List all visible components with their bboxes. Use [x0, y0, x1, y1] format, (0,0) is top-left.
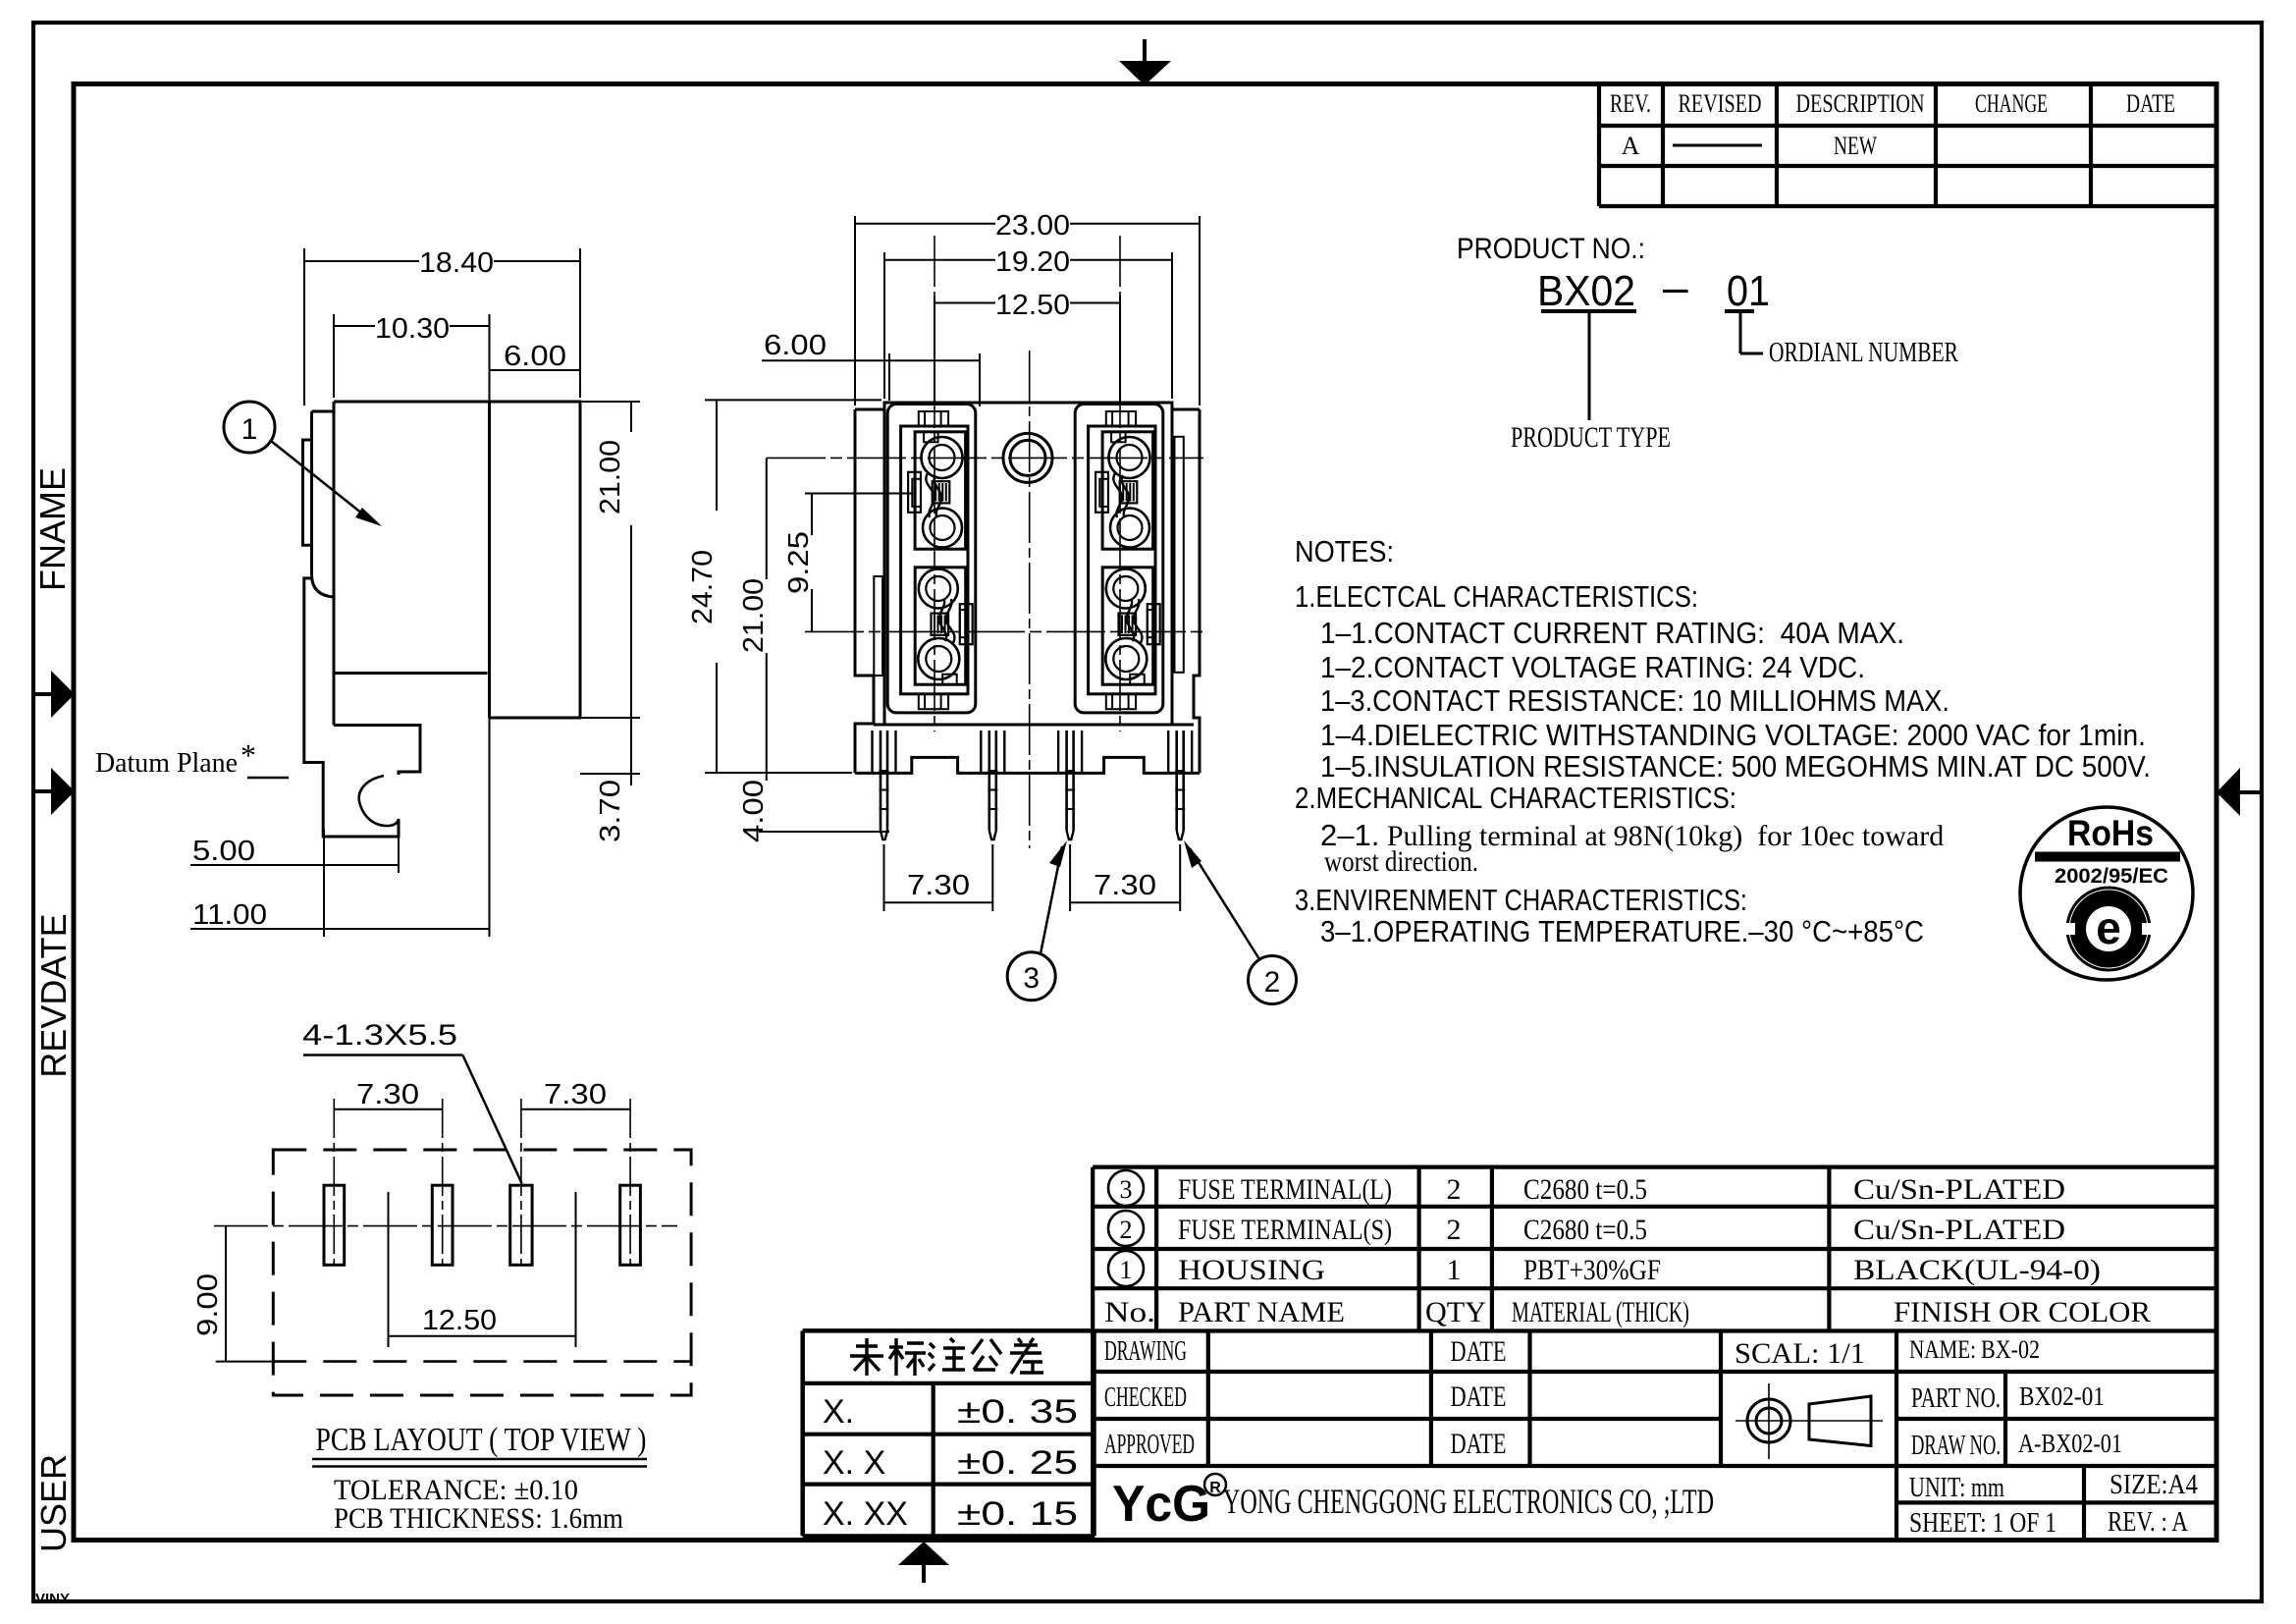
- dim 3.70: [580, 773, 640, 775]
- svg-text:4.00: 4.00: [738, 780, 770, 842]
- svg-text:3: 3: [1023, 962, 1040, 995]
- dim 5.00: [323, 830, 325, 873]
- dim 7.30 left: [883, 844, 885, 911]
- svg-text:1–2.CONTACT VOLTAGE RATING: 24: 1–2.CONTACT VOLTAGE RATING: 24 VDC.: [1320, 650, 1865, 684]
- svg-text:PRODUCT TYPE: PRODUCT TYPE: [1511, 421, 1671, 454]
- svg-text:2.MECHANICAL CHARACTERISTICS:: 2.MECHANICAL CHARACTERISTICS:: [1295, 781, 1736, 815]
- title block grid: [1091, 1331, 1095, 1541]
- svg-text:1: 1: [1447, 1254, 1462, 1286]
- svg-text:YcG: YcG: [1112, 1476, 1210, 1533]
- svg-text:11.00: 11.00: [192, 899, 267, 931]
- svg-text:1–4.DIELECTRIC WITHSTANDING VO: 1–4.DIELECTRIC WITHSTANDING VOLTAGE: 200…: [1320, 718, 2146, 752]
- front view body outline: [855, 403, 1200, 409]
- dim 23.00: [854, 216, 856, 406]
- svg-text:3–1.OPERATING TEMPERATURE.–30: 3–1.OPERATING TEMPERATURE.–30 °C~+85°C: [1320, 914, 1924, 948]
- dim 9.25: [805, 493, 913, 495]
- fuse block left top tab: [919, 411, 948, 426]
- svg-text:1: 1: [1120, 1256, 1133, 1284]
- svg-text:18.40: 18.40: [419, 247, 494, 279]
- svg-text:SIZE:A4: SIZE:A4: [2109, 1470, 2198, 1500]
- dim 21.00 front: [766, 458, 768, 579]
- svg-text:21.00: 21.00: [738, 578, 770, 653]
- projection symbol circles: [1747, 1399, 1790, 1442]
- dim 10.30: [333, 314, 335, 398]
- balloon 2 fuse terminal S: [1249, 956, 1297, 1004]
- BOM table grid: [1093, 1164, 2216, 1168]
- centerline lower clips: [805, 630, 1203, 632]
- svg-text:1: 1: [241, 413, 258, 446]
- svg-text:USER: USER: [33, 1454, 74, 1552]
- svg-text:CHECKED: CHECKED: [1104, 1382, 1187, 1413]
- svg-text:1.ELECTCAL CHARACTERISTICS:: 1.ELECTCAL CHARACTERISTICS:: [1295, 579, 1698, 614]
- underline BX02: [1541, 309, 1636, 313]
- svg-text:1–1.CONTACT CURRENT RATING: 4: 1–1.CONTACT CURRENT RATING: 40A MAX.: [1320, 616, 1904, 650]
- svg-text:DATE: DATE: [1451, 1380, 1507, 1413]
- svg-text:C2680 t=0.5: C2680 t=0.5: [1523, 1173, 1647, 1206]
- svg-text:19.20: 19.20: [995, 246, 1070, 278]
- side view foot: [323, 774, 399, 837]
- svg-text:23.00: 23.00: [995, 210, 1070, 242]
- svg-text:PBT+30%GF: PBT+30%GF: [1523, 1254, 1661, 1286]
- dim 7.30 right: [1069, 844, 1071, 911]
- svg-text:DESCRIPTION: DESCRIPTION: [1796, 89, 1925, 118]
- svg-text:X. XX: X. XX: [823, 1495, 908, 1533]
- svg-text:C2680 t=0.5: C2680 t=0.5: [1523, 1214, 1647, 1246]
- svg-text:Cu/Sn-PLATED: Cu/Sn-PLATED: [1853, 1214, 2065, 1246]
- svg-text:4-1.3X5.5: 4-1.3X5.5: [302, 1019, 457, 1052]
- svg-text:2: 2: [1447, 1214, 1462, 1246]
- svg-text:1–3.CONTACT RESISTANCE: 10 MIL: 1–3.CONTACT RESISTANCE: 10 MILLIOHMS MAX…: [1320, 683, 1949, 718]
- svg-text:3: 3: [1120, 1175, 1133, 1204]
- svg-text:2: 2: [1447, 1173, 1462, 1206]
- projection symbol cone: [1809, 1396, 1871, 1446]
- svg-text:9.00: 9.00: [192, 1273, 224, 1336]
- dim 4.00: [766, 773, 768, 781]
- fuse block right top tab: [1106, 411, 1136, 426]
- svg-text:NOTES:: NOTES:: [1295, 534, 1394, 568]
- side view left tabs: [312, 410, 335, 413]
- svg-text:APPROVED: APPROVED: [1104, 1430, 1195, 1460]
- fuse clip upper left (terminal 3): [908, 432, 966, 549]
- side view inner bottom line: [335, 672, 488, 675]
- svg-text:PART NO.: PART NO.: [1911, 1383, 2001, 1414]
- svg-text:9.25: 9.25: [783, 531, 815, 594]
- svg-text:2: 2: [1120, 1216, 1133, 1244]
- svg-text:A: A: [1622, 132, 1640, 160]
- front view bottom edge with notches: [855, 757, 1200, 773]
- svg-text:DRAW NO.: DRAW NO.: [1911, 1431, 2001, 1461]
- svg-text:2002/95/EC: 2002/95/EC: [2055, 865, 2168, 888]
- svg-text:REV.: REV.: [1610, 89, 1651, 118]
- pcb dim 9.00: [216, 1361, 273, 1363]
- svg-text:–: –: [1663, 261, 1688, 312]
- underline 01: [1725, 309, 1754, 313]
- balloon 1 housing: [224, 402, 275, 453]
- centerline vertical main: [1029, 351, 1031, 848]
- fuse block right outer: [1075, 405, 1163, 713]
- svg-text:BX02: BX02: [1537, 267, 1635, 315]
- pcb dim 7.30 left: [334, 1109, 442, 1110]
- svg-text:VINY: VINY: [35, 1591, 70, 1607]
- BOM row part 1: [1108, 1251, 1144, 1286]
- centerline upper clips: [767, 457, 1203, 459]
- front view flange top line: [874, 724, 1194, 727]
- svg-text:PCB THICKNESS: 1.6mm: PCB THICKNESS: 1.6mm: [334, 1502, 623, 1535]
- svg-text:FUSE TERMINAL(S): FUSE TERMINAL(S): [1178, 1214, 1392, 1246]
- fuse clip lower left (terminal 2): [915, 568, 973, 684]
- pcb body projection dashed line: [273, 1360, 691, 1363]
- pins: [880, 731, 882, 831]
- tolerance table grid: [803, 1328, 1095, 1333]
- svg-text:BX02-01: BX02-01: [2019, 1381, 2105, 1411]
- svg-text:5.00: 5.00: [192, 836, 255, 867]
- svg-text:REVDATE: REVDATE: [33, 913, 74, 1077]
- svg-text:*: *: [240, 737, 256, 773]
- dim 18.40: [303, 248, 305, 406]
- svg-text:DATE: DATE: [1451, 1335, 1507, 1368]
- svg-text:PCB LAYOUT ( TOP VIEW ): PCB LAYOUT ( TOP VIEW ): [316, 1422, 647, 1458]
- dim 11.00: [323, 873, 325, 937]
- svg-text:NAME:: NAME:: [1909, 1335, 1976, 1364]
- BOM row part 3: [1108, 1170, 1144, 1206]
- revision table grid: [1599, 81, 2216, 85]
- svg-text:2: 2: [1264, 966, 1281, 999]
- pcb centerline horizontal: [214, 1225, 677, 1227]
- svg-text:1–5.INSULATION RESISTANCE: 500: 1–5.INSULATION RESISTANCE: 500 MEGOHMS M…: [1320, 749, 2151, 784]
- svg-text:FINISH OR COLOR: FINISH OR COLOR: [1894, 1296, 2151, 1328]
- svg-text:3.70: 3.70: [595, 780, 626, 842]
- dim 12.50 front: [934, 296, 935, 403]
- svg-text:3.ENVIRENMENT CHARACTERISTICS:: 3.ENVIRENMENT CHARACTERISTICS:: [1295, 883, 1747, 917]
- svg-text:HOUSING: HOUSING: [1178, 1254, 1325, 1286]
- centerline fuse left: [934, 236, 935, 731]
- svg-text:worst direction.: worst direction.: [1324, 845, 1478, 878]
- svg-text:7.30: 7.30: [1094, 870, 1156, 901]
- svg-text:e: e: [2096, 902, 2121, 953]
- side view housing outline: [334, 402, 580, 718]
- svg-text:DRAWING: DRAWING: [1104, 1336, 1187, 1367]
- svg-text:SCAL: 1/1: SCAL: 1/1: [1735, 1337, 1865, 1370]
- svg-text:±0. 35: ±0. 35: [957, 1393, 1078, 1431]
- svg-text:12.50: 12.50: [422, 1305, 497, 1336]
- dim 19.20: [883, 252, 885, 399]
- left fold mark upper: [35, 692, 51, 696]
- svg-text:No.: No.: [1104, 1296, 1155, 1328]
- svg-text:12.50: 12.50: [995, 290, 1070, 321]
- svg-text:7.30: 7.30: [356, 1079, 419, 1110]
- pcb dim 7.30 right: [521, 1109, 630, 1110]
- dim 21.00 side: [580, 401, 640, 403]
- svg-text:RoHs: RoHs: [2067, 813, 2154, 853]
- BOM row part 2: [1108, 1211, 1144, 1246]
- pcb dim 12.50: [388, 1192, 390, 1347]
- dim 6.00 side: [490, 369, 581, 371]
- left fold mark lower: [35, 789, 51, 793]
- dim 24.70: [705, 399, 881, 401]
- svg-text:PRODUCT NO.:: PRODUCT NO.:: [1457, 233, 1645, 265]
- RoHs bar: [2035, 852, 2180, 862]
- svg-text:10.30: 10.30: [375, 313, 450, 345]
- side view left flange: [304, 578, 323, 774]
- svg-text:7.30: 7.30: [544, 1079, 607, 1110]
- pcb pad centerlines vertical: [333, 1099, 335, 1265]
- svg-text:BX-02: BX-02: [1981, 1335, 2040, 1364]
- fuse block right inner cavity: [1089, 426, 1155, 694]
- top fold mark: [1143, 39, 1147, 62]
- fuse block left inner cavity: [901, 426, 968, 694]
- svg-text:FNAME: FNAME: [32, 467, 73, 591]
- svg-text:MATERIAL (THICK): MATERIAL (THICK): [1512, 1296, 1689, 1328]
- svg-text:24.70: 24.70: [687, 550, 719, 624]
- svg-text:Cu/Sn-PLATED: Cu/Sn-PLATED: [1853, 1173, 2065, 1206]
- front view left side tab: [874, 576, 882, 676]
- fuse clip lower right (terminal 2): [1102, 568, 1160, 684]
- svg-text:01: 01: [1727, 267, 1770, 315]
- tolerance table header CJK: [856, 1344, 878, 1347]
- fuse clip upper right (terminal 3): [1095, 432, 1153, 549]
- svg-text:6.00: 6.00: [764, 330, 827, 361]
- svg-text:DATE: DATE: [2126, 89, 2175, 118]
- balloon 3 fuse terminal L: [1007, 952, 1055, 1001]
- side view snap hook: [359, 776, 399, 826]
- mounting hole: [1003, 433, 1052, 482]
- svg-text:QTY: QTY: [1425, 1296, 1486, 1328]
- svg-text:FUSE TERMINAL(L): FUSE TERMINAL(L): [1178, 1173, 1392, 1206]
- svg-text:A-BX02-01: A-BX02-01: [2018, 1429, 2122, 1458]
- svg-text:±0. 15: ±0. 15: [957, 1495, 1078, 1533]
- svg-text:7.30: 7.30: [907, 870, 970, 901]
- svg-text:REVISED: REVISED: [1679, 89, 1762, 118]
- RoHs e-mark emblem: [2067, 888, 2150, 970]
- leader to ordinal number: [1739, 312, 1742, 353]
- svg-text:R: R: [1209, 1480, 1221, 1496]
- svg-text:21.00: 21.00: [595, 440, 626, 514]
- leader to product type: [1588, 312, 1591, 420]
- svg-text:NEW: NEW: [1834, 132, 1877, 160]
- svg-text:X. X: X. X: [823, 1444, 885, 1482]
- svg-text:Datum Plane: Datum Plane: [95, 748, 238, 779]
- svg-text:YONG CHENGGONG ELECTRONICS: YONG CHENGGONG ELECTRONICS CO, ;LTD: [1223, 1482, 1714, 1521]
- svg-text:SHEET: 1 OF 1: SHEET: 1 OF 1: [1909, 1508, 2056, 1539]
- svg-text:±0. 25: ±0. 25: [957, 1444, 1078, 1482]
- svg-text:REV. : A: REV. : A: [2108, 1507, 2189, 1538]
- svg-text:ORDIANL NUMBER: ORDIANL NUMBER: [1769, 338, 1958, 368]
- dim 6.00 front: [888, 353, 890, 401]
- fuse block left bottom tab: [919, 694, 948, 709]
- svg-text:X.: X.: [823, 1393, 854, 1431]
- right fold mark: [2240, 790, 2261, 794]
- fuse block left outer: [887, 405, 976, 713]
- centerline fuse right: [1119, 236, 1121, 731]
- svg-text:PART NAME: PART NAME: [1178, 1296, 1345, 1328]
- svg-text:UNIT: mm: UNIT: mm: [1909, 1473, 2004, 1503]
- svg-text:DATE: DATE: [1451, 1428, 1507, 1460]
- fuse block right bottom tab: [1106, 694, 1136, 709]
- front view right side tab: [1175, 437, 1184, 673]
- pcb pads: [324, 1185, 345, 1265]
- RoHs logo outer circle: [2020, 807, 2193, 980]
- svg-text:6.00: 6.00: [504, 341, 566, 372]
- svg-text:BLACK(UL-94-0): BLACK(UL-94-0): [1853, 1254, 2101, 1286]
- side view bottom step: [334, 726, 420, 776]
- pcb layout dashed outline: [273, 1150, 691, 1395]
- bottom fold mark: [922, 1565, 926, 1583]
- svg-text:CHANGE: CHANGE: [1975, 89, 2048, 118]
